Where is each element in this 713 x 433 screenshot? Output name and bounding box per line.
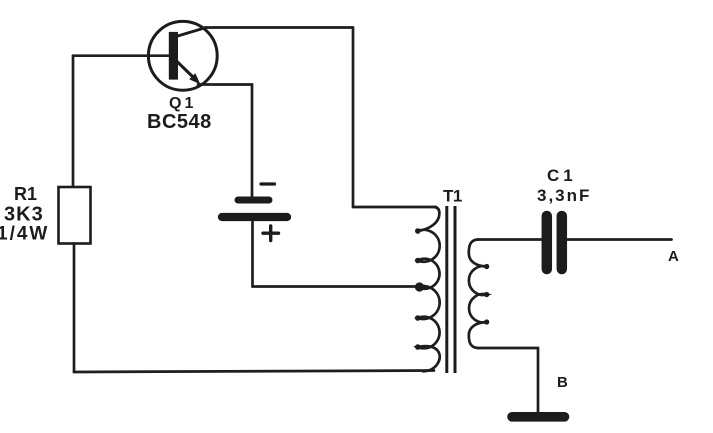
svg-text:Q1: Q1 — [169, 95, 196, 112]
svg-text:B: B — [557, 374, 568, 391]
transistor Q1 — [148, 21, 217, 90]
wire: top rail vertical down — [352, 28, 355, 208]
battery minus sign — [261, 182, 275, 185]
wire: emitter down to battery — [251, 85, 254, 198]
wire: emitter horizontal — [198, 83, 252, 86]
svg-text:T1: T1 — [443, 187, 462, 206]
wire: top rail to T1 primary top — [353, 206, 436, 209]
wire: left rail horizontal to base — [73, 54, 169, 57]
wire: secondary top to C1 — [478, 238, 543, 241]
resistor R1 — [59, 187, 91, 244]
transformer T1 core — [447, 206, 455, 373]
wire: left rail vertical down to R1 — [72, 56, 75, 188]
wire: battery to T1 center tap — [253, 285, 418, 288]
svg-text:BC548: BC548 — [147, 111, 212, 133]
transformer T1 secondary winding — [469, 240, 490, 349]
ground — [512, 412, 565, 422]
svg-text:R1: R1 — [14, 184, 37, 204]
svg-text:3K3: 3K3 — [4, 204, 44, 226]
transformer T1 primary winding — [415, 207, 440, 371]
node: T1 center tap junction — [415, 282, 424, 291]
wire: bottom rail to T1 primary bottom — [74, 371, 434, 373]
wire: R1 bottom to bottom rail — [73, 244, 76, 373]
wire: secondary bottom — [478, 347, 539, 350]
wire: collector to top rail — [205, 26, 353, 29]
svg-text:3,3nF: 3,3nF — [537, 186, 591, 205]
svg-text:1/4W: 1/4W — [0, 224, 49, 245]
wire: C1 to terminal A — [567, 238, 672, 241]
svg-text:A: A — [668, 248, 679, 265]
svg-text:C1: C1 — [547, 166, 577, 185]
wire: down to ground — [537, 348, 540, 413]
capacitor C1 — [547, 216, 562, 269]
battery plus sign — [263, 226, 279, 241]
wire: battery down — [251, 221, 254, 287]
battery B1 — [222, 200, 287, 217]
